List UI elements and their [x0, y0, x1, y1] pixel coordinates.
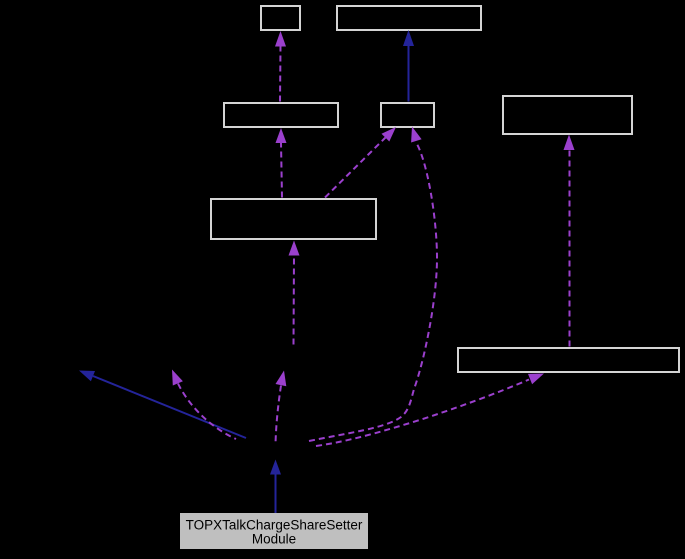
node box N5 (row2 right, two-line) — [503, 96, 632, 134]
edge E1 dashed N3 to N1 — [275, 31, 286, 102]
edge E3 dashed N6 to N3 — [276, 128, 287, 198]
node box N1 (top small) — [261, 6, 300, 30]
node box N2 (top wide) — [337, 6, 481, 30]
edge E5 dashed long curve from hidden node to N4 — [309, 127, 437, 442]
node B8 gray current node TOPXTalkChargeShareSetterModule — [180, 513, 368, 549]
edge E12 solid blue gray node to hidden node — [270, 460, 281, 514]
edge E7 dashed hidden node to N7 — [316, 374, 544, 447]
node box N7 (row4 right) — [458, 348, 679, 372]
svg-text:Module: Module — [252, 532, 296, 547]
edge E9 dashed hidden node to hidden node B — [172, 370, 236, 440]
edge E8 solid blue hidden node to hidden left node — [79, 371, 246, 439]
edge E6 dashed N7 to N5 — [564, 135, 575, 347]
node box N4 (row2 middle) — [381, 103, 434, 127]
edge E2 solid blue N4 to N2 — [403, 30, 414, 102]
node box N3 (row2 left) — [224, 103, 338, 127]
edge E4 dashed N6 to N4 diagonal — [325, 127, 396, 198]
edge E10 dashed hidden node to hidden node C — [276, 371, 287, 445]
svg-text:TOPXTalkChargeShareSetter: TOPXTalkChargeShareSetter — [186, 518, 363, 533]
node box N6 (row3 center, two-line) — [211, 199, 376, 239]
edge E11 dashed hidden node C to N6 — [289, 241, 300, 345]
